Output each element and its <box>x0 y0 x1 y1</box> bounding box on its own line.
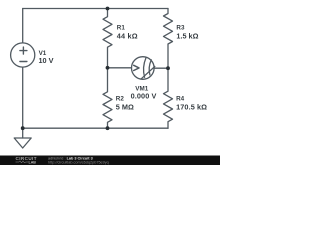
wire voltmeter left <box>108 67 132 69</box>
footer logo LAB <box>16 161 37 165</box>
voltage source V1 <box>11 43 35 67</box>
ground <box>14 128 31 148</box>
footer bar <box>0 156 220 166</box>
svg-text:1.5 kΩ: 1.5 kΩ <box>176 31 198 40</box>
svg-text:5 MΩ: 5 MΩ <box>116 102 134 111</box>
svg-text:44 kΩ: 44 kΩ <box>117 31 138 40</box>
resistor R4 <box>164 68 173 128</box>
svg-text:10 V: 10 V <box>39 56 54 65</box>
resistor R2 <box>103 68 112 129</box>
node top-middle junction <box>106 7 110 11</box>
wire left top lead V1 <box>22 9 24 43</box>
node bottom-middle junction <box>106 126 110 130</box>
wire left bottom lead V1 <box>22 67 24 128</box>
node bottom-left ground junction <box>21 126 25 130</box>
resistor R1 <box>103 9 112 68</box>
svg-text:170.5 kΩ: 170.5 kΩ <box>176 102 207 111</box>
wire top <box>23 8 168 10</box>
svg-text:LAB: LAB <box>29 161 37 165</box>
node middle-left junction <box>106 66 110 70</box>
node middle-right junction <box>166 66 170 70</box>
svg-text:0.000 V: 0.000 V <box>131 92 157 101</box>
wire bottom <box>23 127 168 129</box>
resistor R3 <box>164 9 173 69</box>
voltmeter VM1 <box>132 57 155 80</box>
svg-text:http://circuitlab.com/c6dq2pb7: http://circuitlab.com/c6dq2pb75e9yq <box>48 161 109 165</box>
wire voltmeter right <box>154 67 168 69</box>
